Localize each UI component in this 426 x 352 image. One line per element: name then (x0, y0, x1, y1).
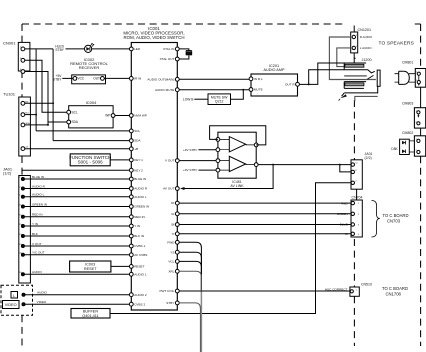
wire JA01 V OUT (24, 245, 129, 247)
connector CN1201 (351, 26, 371, 64)
svg-text:CM801: CM801 (402, 61, 413, 65)
svg-text:MUTE: MUTE (254, 88, 263, 92)
svg-text:KEY 1: KEY 1 (134, 158, 143, 162)
svg-text:8: 8 (355, 170, 357, 172)
svg-text:(1/2): (1/2) (3, 171, 12, 176)
wire bundle to bottom edge (200, 290, 202, 352)
wire KEY2 row (22, 169, 129, 171)
svg-text:Y IN: Y IN (32, 222, 38, 226)
svg-text:CN510: CN510 (361, 282, 372, 286)
svg-text:AUDIO: AUDIO (37, 290, 47, 294)
jack J1200 sleeve (377, 70, 380, 86)
wire JA01 AUDIO (24, 273, 129, 275)
svg-text:CN704: CN704 (352, 196, 363, 200)
IC003 reset (70, 261, 111, 272)
svg-text:4: 4 (358, 234, 360, 236)
wire IC001 PWT to CN510 (179, 290, 350, 292)
svg-text:IN R,L: IN R,L (254, 77, 263, 81)
svg-text:PWT COIL: PWT COIL (159, 289, 174, 293)
svg-text:+9V STBY: +9V STBY (183, 168, 198, 172)
svg-text:CN703: CN703 (387, 219, 401, 224)
wire audio mute to IC201 (179, 89, 249, 91)
connector CM801 (402, 61, 426, 87)
svg-text:YI: YI (171, 232, 174, 236)
wire IC001 YS curve down (179, 252, 201, 290)
op-amp buffer A (229, 137, 245, 152)
svg-text:AV LINK: AV LINK (230, 184, 244, 188)
wire JA01 Y IN (24, 225, 129, 227)
svg-text:YS: YS (170, 250, 174, 254)
wire SDA bus to IC001 (53, 140, 129, 142)
svg-text:CVBS 2: CVBS 2 (134, 302, 145, 306)
connector JA01 (1/2) (19, 176, 31, 284)
svg-text:XRL: XRL (168, 269, 174, 273)
svg-text:IC004: IC004 (86, 100, 97, 105)
wire CN001 pin1 to buses (25, 48, 53, 50)
svg-text:HSC CORRECT: HSC CORRECT (325, 288, 348, 292)
svg-text:RESET: RESET (134, 265, 144, 269)
svg-text:FWD: FWD (167, 240, 175, 244)
wire +5V STBY to IC002 VCC (62, 77, 73, 79)
wire JA01(2/2) link pins 1-2 (340, 165, 351, 172)
svg-text:AUDIO 2: AUDIO 2 (134, 293, 147, 297)
svg-text:CM803: CM803 (402, 101, 413, 105)
svg-text:1: 1 (358, 203, 360, 205)
svg-text:AUDIO AMP: AUDIO AMP (263, 68, 285, 72)
svg-text:LED: LED (134, 47, 141, 51)
svg-text:GREEN: GREEN (337, 212, 348, 216)
wire L AUDIO to jack (gray) (337, 48, 352, 67)
svg-text:4: 4 (355, 181, 357, 183)
svg-text:AUDIO R: AUDIO R (134, 187, 148, 191)
svg-text:GI: GI (171, 212, 174, 216)
svg-text:RESET: RESET (84, 267, 97, 271)
wire LOW B to mute sw (194, 98, 208, 100)
wire IC001 VCL curve down (179, 261, 201, 290)
svg-text:BLUE IN: BLUE IN (134, 177, 146, 181)
svg-text:L: L (13, 294, 15, 298)
connector JA01 (2/2) (351, 152, 373, 189)
wire IC003 to IC001 RESET (111, 265, 130, 267)
svg-text:AUDIO MUTE: AUDIO MUTE (155, 88, 174, 92)
svg-text:AUDIO 1: AUDIO 1 (134, 272, 147, 276)
arrow into IC001 AV OUT pin (180, 187, 185, 190)
wire JA01 GREEN IN (24, 206, 129, 208)
svg-text:D8K: D8K (391, 147, 398, 151)
tuner TU101 (19, 97, 31, 156)
IC201 audio amp (249, 64, 299, 96)
IC001 left pin labels (134, 47, 149, 306)
connector CM802 (402, 131, 426, 156)
svg-text:BLUE: BLUE (340, 223, 348, 227)
wire JA01 AUDIO L (24, 196, 129, 198)
svg-text:AUDIO L: AUDIO L (134, 195, 147, 199)
svg-text:V OUT: V OUT (32, 242, 42, 246)
wire CN001 pin2 to IC004 SCL (25, 60, 69, 112)
svg-text:LOW B: LOW B (183, 97, 194, 101)
connector CM803 (402, 101, 426, 128)
IC002 remote control receiver (70, 57, 109, 84)
IC451 AV link RGB buffer (218, 132, 256, 188)
wire LED to IC001 LED pin (92, 48, 130, 50)
brace to C board (372, 201, 380, 238)
IC001 right pin labels (147, 47, 175, 305)
wire R AUDIO to jack (gray) (329, 37, 376, 80)
svg-text:AUDIO OUT(MAIN): AUDIO OUT(MAIN) (147, 77, 174, 81)
jack VIDEO front (3, 301, 26, 309)
wire mute sw to audio mute net (231, 90, 244, 100)
wire HLED STBY to LED (66, 48, 85, 50)
svg-text:BLUE IN: BLUE IN (32, 175, 44, 179)
svg-text:RED IN: RED IN (32, 213, 43, 217)
svg-text:AUDIO: AUDIO (32, 270, 42, 274)
connector CN704 (351, 196, 362, 237)
svg-text:2: 2 (358, 214, 360, 216)
svg-text:CVBS 1: CVBS 1 (134, 244, 145, 248)
wire IC451 feedback loop A (210, 126, 266, 145)
svg-text:SCL: SCL (72, 110, 78, 114)
wire speaker to CM801 (409, 74, 416, 82)
svg-text:GREEN IN: GREEN IN (134, 205, 149, 209)
wire D8K to CM802 (409, 141, 414, 152)
switch block S001-S006 function switch (69, 154, 111, 166)
svg-text:Y/C OUT: Y/C OUT (32, 251, 45, 255)
wire TU101 +B to IC001 (25, 148, 130, 150)
svg-text:+9V STBY: +9V STBY (183, 148, 198, 152)
buffer Q401,Q411 (71, 309, 110, 319)
svg-text:XTAL OUT: XTAL OUT (160, 57, 175, 61)
svg-text:AV OUT: AV OUT (163, 187, 174, 191)
connector CN510 (350, 282, 372, 296)
svg-text:XTAL IN: XTAL IN (163, 47, 174, 51)
IC004 EEPROM (67, 100, 115, 128)
wire JA01 Y/C OUT (24, 254, 129, 256)
wire buffer output to JA01(2/2) pin3 (110, 183, 351, 314)
svg-text:CM802: CM802 (402, 131, 413, 135)
svg-text:VCL: VCL (168, 260, 174, 264)
svg-text:VIDEO: VIDEO (37, 300, 47, 304)
svg-text:VCC: VCC (78, 77, 85, 81)
svg-text:RI: RI (171, 201, 174, 205)
jack L audio front (11, 292, 25, 299)
front AV input assembly (dashed) (1, 285, 33, 315)
wire TU101 SCL to bus (25, 114, 36, 116)
svg-text:+B: +B (134, 147, 138, 151)
svg-text:V OUT: V OUT (165, 159, 175, 163)
svg-text:TU101: TU101 (3, 92, 16, 97)
wire CM801 to CM803 chain (420, 87, 422, 136)
svg-text:Q212: Q212 (215, 100, 224, 104)
wire IC001 XRL curve down (179, 271, 201, 290)
svg-text:TO C BOARD: TO C BOARD (383, 213, 409, 218)
svg-text:IR IN: IR IN (134, 77, 141, 81)
svg-text:Y IN: Y IN (134, 224, 140, 228)
wire IC001 STBY curve down (179, 303, 200, 352)
svg-text:KEY 2: KEY 2 (134, 168, 143, 172)
svg-text:1: 1 (356, 290, 358, 292)
wire front video to IC001 CVBS 2 (25, 303, 130, 305)
svg-text:J1200: J1200 (362, 58, 372, 62)
wire IC001 V OUT to IC451 in (179, 160, 216, 162)
svg-text:R AUDIO: R AUDIO (360, 35, 373, 39)
svg-text:GREEN IN: GREEN IN (32, 202, 47, 206)
svg-text:Q401,411: Q401,411 (82, 314, 98, 318)
svg-text:BI: BI (171, 223, 174, 227)
svg-text:WP: WP (105, 114, 110, 118)
svg-text:OUT R: OUT R (285, 82, 295, 86)
svg-text:S001 - S006: S001 - S006 (78, 160, 104, 165)
svg-text:L AUDIO: L AUDIO (360, 46, 372, 50)
svg-text:SI: SI (345, 232, 348, 236)
wire JA01 BLUE IN (24, 178, 129, 180)
svg-text:STBY: STBY (55, 48, 64, 52)
connector CN001 (18, 42, 30, 73)
svg-text:CN1201: CN1201 (358, 28, 372, 32)
svg-text:STBY: STBY (53, 78, 62, 82)
IC001 micro video processor main box (123, 26, 184, 310)
svg-text:NVM WP: NVM WP (134, 114, 147, 118)
wire sleeve to ground (344, 86, 378, 93)
svg-text:OUT: OUT (93, 77, 100, 81)
wire audio out main to IC201 (179, 78, 249, 80)
svg-text:ROM, AUDIO, VIDEO SWITCH: ROM, AUDIO, VIDEO SWITCH (124, 35, 185, 40)
svg-text:TO SPEAKERS: TO SPEAKERS (379, 41, 414, 47)
wire JA01 AUDIO R (24, 188, 129, 190)
LED D001 (85, 43, 95, 52)
svg-text:RED IN: RED IN (134, 215, 145, 219)
diodes D8K (400, 139, 410, 154)
svg-text:CN001: CN001 (3, 41, 16, 46)
wire JA01(2/2) to CN704 (356, 189, 358, 200)
speaker SP801 (395, 71, 410, 84)
IC001 right pins (175, 47, 179, 305)
wire TU101 SDA to bus (25, 124, 48, 126)
svg-text:CN1708: CN1708 (386, 292, 402, 297)
svg-text:BLK: BLK (32, 232, 39, 236)
wire IC004 WP to IC001 NVM WP (115, 115, 130, 117)
svg-text:AUDIO R: AUDIO R (32, 184, 46, 188)
svg-text:STBY: STBY (166, 301, 174, 305)
IC451 pins (216, 138, 258, 173)
svg-text:VIDEO: VIDEO (5, 303, 17, 307)
jack J1200 upper plug bar (344, 63, 364, 70)
svg-text:SCL: SCL (134, 129, 140, 133)
crystal X001 (179, 49, 192, 59)
svg-text:12: 12 (355, 163, 358, 165)
jack J1200 lower plug bar (344, 82, 366, 89)
wire CN001 pin3 to IC004 SDA (25, 72, 48, 125)
svg-text:AUDIO L: AUDIO L (32, 193, 45, 197)
wire IC002 OUT to IC001 IR pin (104, 77, 129, 79)
wire IC201 OUT R to jack tip (299, 63, 366, 84)
wire jack shield return (gray) (355, 96, 378, 101)
wire TU101 pin1 to SDA bus (25, 102, 53, 104)
IC001 left pins (129, 47, 133, 306)
svg-text:SDA: SDA (72, 120, 79, 124)
wire jack ring contact (309, 70, 375, 85)
svg-text:BLK IN: BLK IN (134, 234, 144, 238)
wire function switch to IC001 KEY1 (110, 159, 129, 161)
svg-text:RED: RED (341, 201, 348, 205)
transistor Q212 mute switch (208, 94, 231, 105)
wire SCL bus to IC001 (36, 130, 129, 132)
svg-text:SDA: SDA (134, 139, 141, 143)
svg-text:AV CVBS: AV CVBS (134, 253, 147, 257)
ground (339, 93, 347, 101)
wire IC451 out B to JA01(2/2) and return (258, 164, 340, 166)
svg-text:3: 3 (358, 225, 360, 227)
wire JA01 RED IN (24, 216, 129, 218)
svg-text:TO C BOARD: TO C BOARD (382, 286, 408, 291)
wire JA01 BLK (24, 235, 129, 237)
svg-text:(2/2): (2/2) (365, 156, 372, 160)
wire IC001 RGB outputs to CN704 (179, 202, 351, 204)
wire front audio to IC001 AUDIO 2 (25, 294, 130, 296)
svg-text:RECEIVER: RECEIVER (79, 65, 100, 70)
wire IC001 FWD curve down (179, 242, 201, 290)
jack J1200 switch contact upper (344, 75, 367, 77)
op-amp buffer B (229, 156, 245, 171)
